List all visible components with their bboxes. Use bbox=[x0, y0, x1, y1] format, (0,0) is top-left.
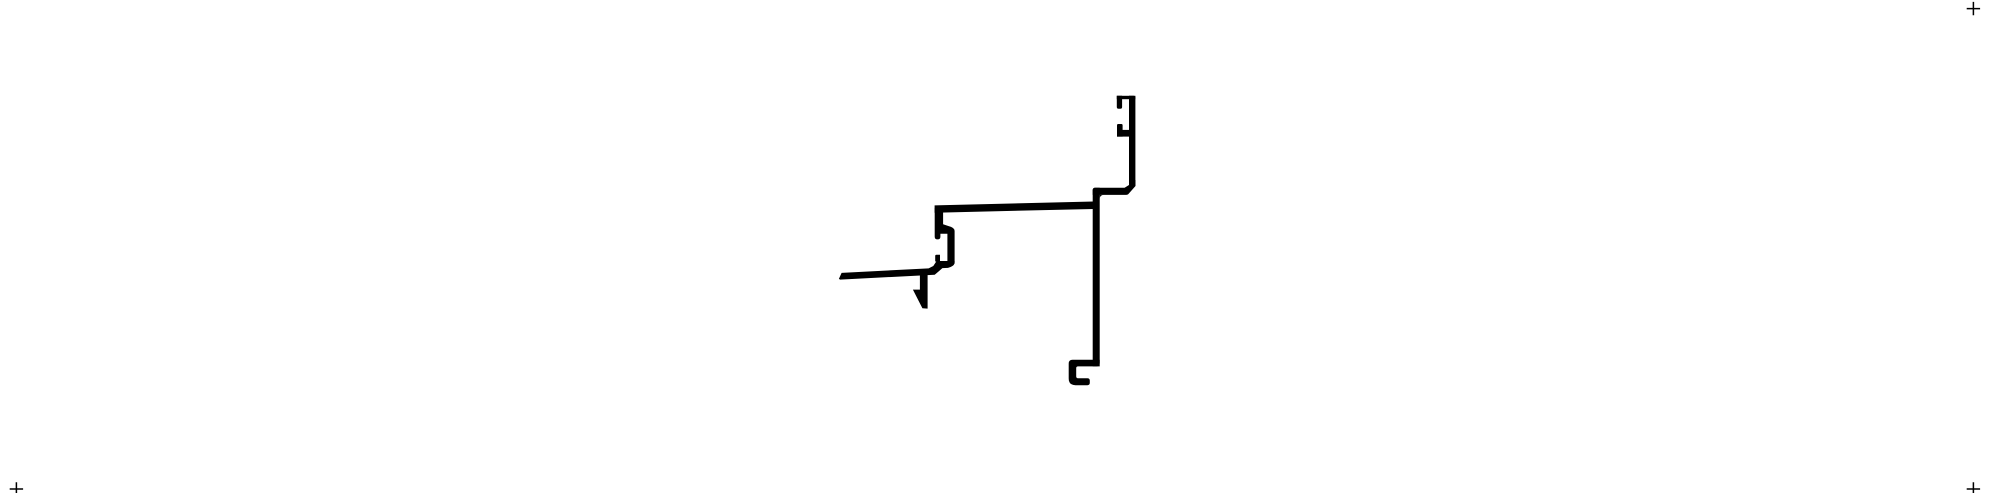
profile top channel: top bar bbox=[1117, 96, 1136, 99]
profile top channel: lower lip bridge bbox=[1117, 130, 1129, 137]
profile top channel: lower lip finger bbox=[1117, 124, 1123, 137]
profile: long sloped bar bbox=[935, 202, 1094, 213]
profile: bump lip bbox=[935, 255, 940, 262]
registration cross top-right bbox=[1967, 2, 1980, 15]
profile top channel: right vertical bar bbox=[1129, 96, 1135, 186]
profile top channel: upper left finger bbox=[1117, 96, 1122, 109]
profile: upper horizontal web bbox=[1093, 180, 1136, 195]
profile: left arm with junction band bbox=[839, 261, 955, 280]
profile: bottom hook bbox=[1069, 360, 1100, 385]
profile: web-to-bar inner fillet bbox=[1100, 195, 1104, 199]
registration cross bottom-right bbox=[1967, 482, 1980, 493]
profile: middle vertical bar bbox=[1093, 188, 1100, 367]
profile: left stub with tooth and middle short bar bbox=[935, 208, 955, 263]
registration cross bottom-left bbox=[10, 482, 23, 493]
profile: arm descender with wedge triangle bbox=[913, 270, 928, 309]
